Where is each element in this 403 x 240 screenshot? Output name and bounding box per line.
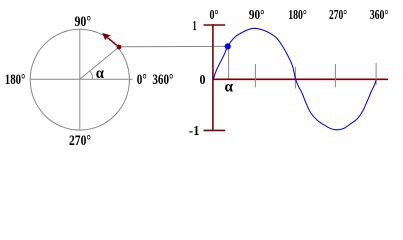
svg-text:270°: 270°: [69, 133, 91, 149]
tick 360deg: [375, 63, 377, 85]
unit circle: [30, 29, 129, 130]
tick +1: [204, 24, 226, 26]
blue point on sine curve: [225, 43, 231, 49]
radius line to point at angle alpha: [80, 47, 119, 79]
sine y-axis: [212, 24, 214, 131]
svg-text:α: α: [96, 65, 104, 82]
tick 180deg: [294, 67, 296, 89]
sine x-axis: [213, 78, 388, 80]
svg-text:α: α: [225, 79, 234, 96]
horizontal diameter: [30, 78, 132, 80]
svg-text:0: 0: [200, 72, 206, 87]
sine curve: [213, 28, 376, 130]
svg-text:360°: 360°: [370, 7, 389, 22]
vertical diameter: [79, 29, 81, 130]
tick -1: [204, 129, 226, 131]
svg-text:180°: 180°: [5, 72, 26, 88]
svg-text:180°: 180°: [288, 7, 307, 22]
rotation arrowhead: [102, 33, 111, 40]
wire: vertical drop from sine point to x-axis: [228, 47, 230, 79]
svg-text:90°: 90°: [75, 14, 92, 30]
angle arc marker: [90, 71, 93, 79]
tick 90deg: [254, 64, 256, 87]
svg-text:1: 1: [193, 18, 197, 33]
wire: horizontal connector from circle point to sine point: [119, 45, 228, 47]
rotation arrow line: [108, 38, 117, 46]
tick 270deg: [334, 64, 336, 87]
red point on circle: [117, 45, 122, 50]
svg-text:-1: -1: [189, 123, 200, 138]
svg-text:270°: 270°: [329, 7, 347, 22]
svg-text:90°: 90°: [249, 7, 265, 22]
svg-text:0°: 0°: [210, 7, 219, 22]
svg-text:0° 360°: 0° 360°: [137, 72, 174, 88]
